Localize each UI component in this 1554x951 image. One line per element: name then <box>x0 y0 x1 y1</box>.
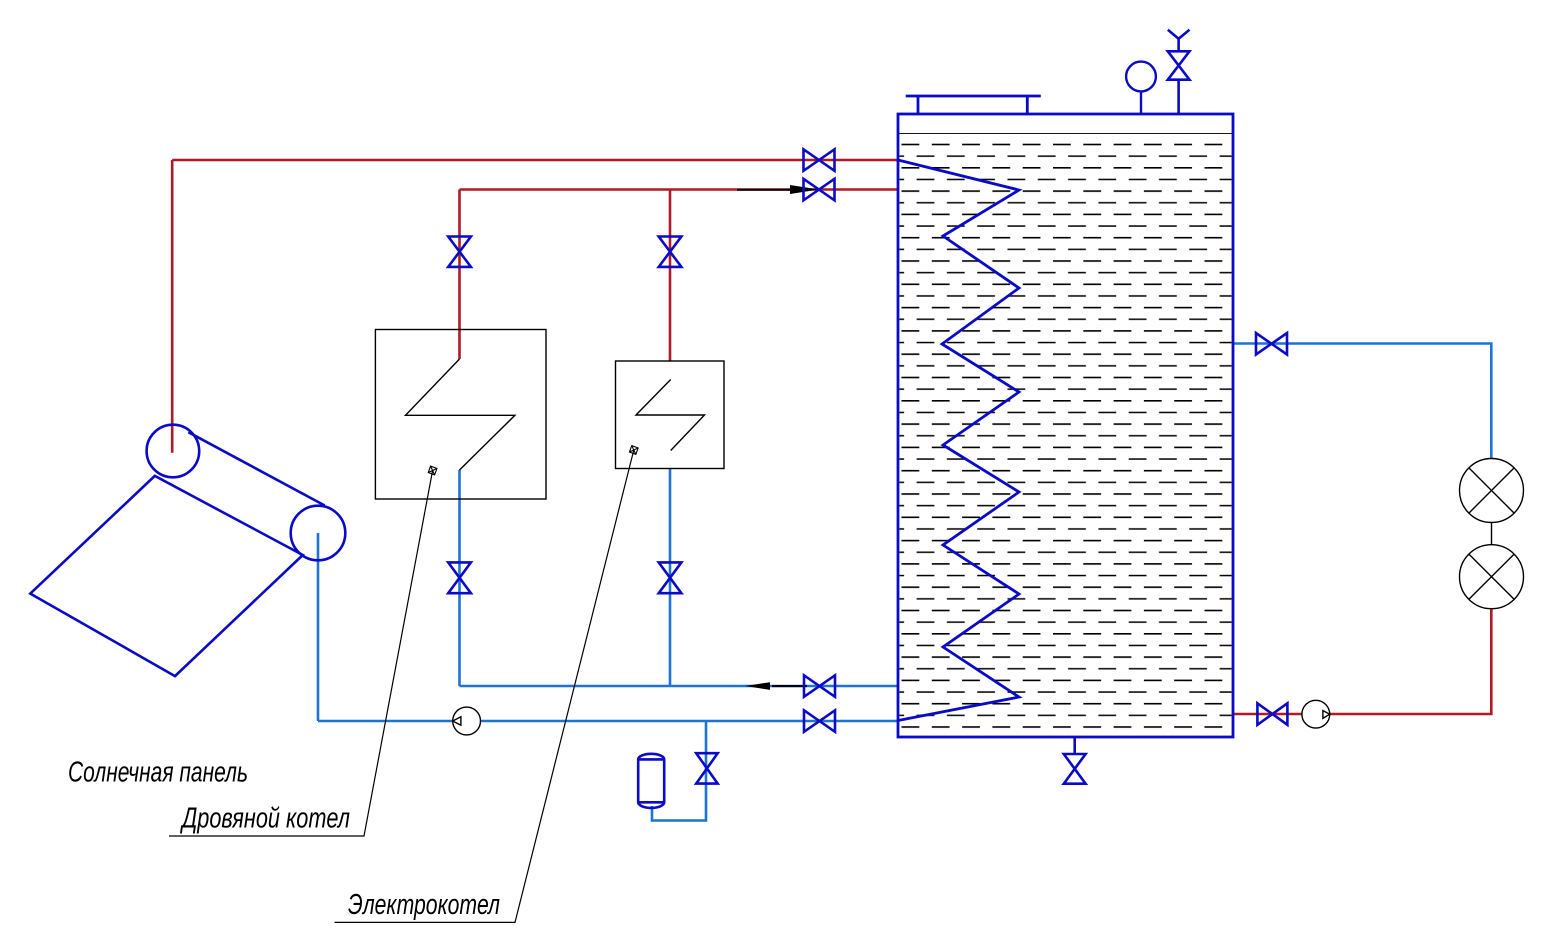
cylinder right drum <box>291 506 346 561</box>
arrow out of tank (bottom, pointing left) <box>745 682 807 690</box>
leader marker on wood boiler <box>428 466 437 475</box>
valve on expansion branch <box>696 753 718 783</box>
storage tank water hatch fill <box>900 140 1232 736</box>
pump on lower cold line <box>453 707 481 735</box>
wire: upper cold return line (boilers to tank) <box>460 685 899 688</box>
svg-text:Солнечная панель: Солнечная панель <box>68 757 248 789</box>
radiator 1 <box>1460 459 1524 523</box>
valve on upper cold return <box>804 675 835 697</box>
wood boiler box <box>375 330 546 500</box>
storage tank body <box>898 114 1233 737</box>
link between radiators <box>1491 523 1493 545</box>
radiator 2 <box>1460 545 1524 609</box>
valve on radiator blue supply <box>1256 333 1287 355</box>
pump on radiator red return <box>1302 700 1330 728</box>
wire: lower cold line (solar return to tank coil) <box>318 720 898 723</box>
safety valve on tank top <box>1168 30 1190 114</box>
electric boiler heater symbol <box>636 380 705 451</box>
svg-text:Дровяной котел: Дровяной котел <box>180 803 350 835</box>
valve on electric boiler hot riser <box>659 237 682 267</box>
underline and leader for wood boiler label <box>169 471 433 837</box>
wire: wood boiler cold drop <box>458 470 461 686</box>
svg-text:Электрокотел: Электрокотел <box>348 889 500 921</box>
valve on lower cold line <box>804 710 835 732</box>
valve on wood boiler cold drop <box>448 562 471 593</box>
solar panel <box>30 425 345 676</box>
wire: solar cold drop <box>317 533 320 721</box>
expansion tank <box>638 754 664 808</box>
storage tank water level line <box>898 133 1233 135</box>
wire: wood boiler hot riser <box>458 190 461 360</box>
underline and leader for electric boiler label <box>335 450 634 922</box>
wire: boiler hot header (second red line) <box>460 188 899 191</box>
wire: radiators red return to tank <box>1233 609 1491 714</box>
valve on wood boiler hot riser <box>448 237 471 267</box>
tank top flange <box>906 96 1041 114</box>
cylinder upper edge <box>188 432 324 505</box>
valve on top red line <box>804 149 835 171</box>
wire: expansion tank branch <box>652 721 706 821</box>
arrow into tank (top, pointing right) <box>737 185 819 194</box>
panel quad <box>30 476 303 676</box>
valve on second red line <box>804 179 835 201</box>
valve on radiator red return <box>1257 703 1287 725</box>
wire: electric boiler hot riser <box>669 190 672 362</box>
electric boiler box <box>616 361 725 469</box>
wood boiler heater symbol <box>406 359 515 470</box>
wire: tank to radiators blue supply <box>1233 344 1491 459</box>
tank drain valve <box>1064 737 1086 784</box>
valve on electric boiler cold drop <box>659 562 682 593</box>
wire: solar hot riser (left vertical red) <box>171 160 174 453</box>
tank internal coil heat exchanger <box>898 160 1019 721</box>
wire: top hot red line from solar riser to tank <box>172 159 898 162</box>
leader marker on electric boiler <box>629 446 638 455</box>
wire: electric boiler cold drop <box>669 469 672 687</box>
cylinder left drum <box>147 425 200 478</box>
thermometer gauge on tank top <box>1126 62 1156 114</box>
